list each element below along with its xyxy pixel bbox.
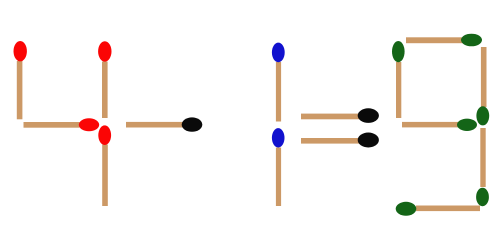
match A: digit 4 left vertical (red head): [14, 41, 27, 119]
match B: digit 4 bottom horizontal (red head right): [24, 118, 100, 131]
match K: digit 9 left vertical (green head top): [392, 41, 405, 118]
match D: digit 4 right vertical lower (red head): [98, 125, 111, 206]
match F: digit 1 upper vertical (blue head): [272, 43, 285, 122]
match G: digit 1 lower vertical (blue head): [272, 128, 285, 206]
match M: digit 9 middle horizontal (green head right): [402, 119, 477, 131]
match E: minus sign horizontal (black head right): [126, 117, 202, 131]
match L: digit 9 right vertical upper (green head bottom): [476, 47, 489, 125]
match C: digit 4 right vertical upper (red head): [98, 41, 111, 118]
match N: digit 9 tail vertical (green head bottom): [476, 128, 489, 206]
match H: equals sign upper horizontal (black head right): [301, 108, 379, 123]
match I: equals sign lower horizontal (black head right): [301, 133, 379, 148]
match O: digit 9 bottom horizontal (green head left): [396, 202, 480, 216]
match J: digit 9 top horizontal (green head right): [406, 34, 482, 47]
